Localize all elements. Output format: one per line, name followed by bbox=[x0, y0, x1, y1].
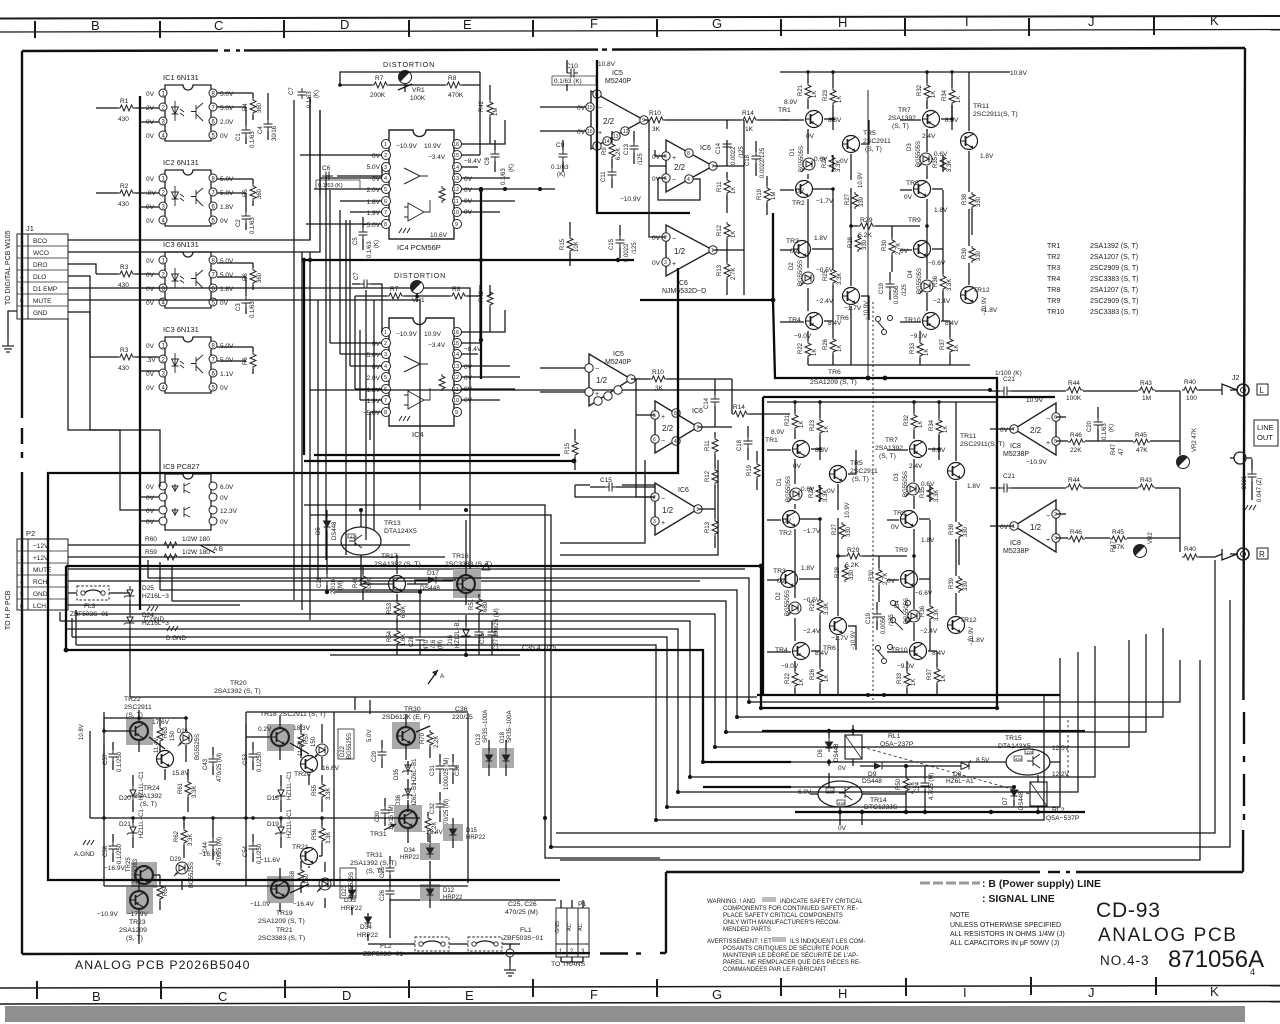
svg-text:(K): (K) bbox=[1109, 424, 1115, 432]
svg-text:R13: R13 bbox=[705, 521, 711, 533]
svg-text:POSANTS CRITIQUES DE SÉCURI: POSANTS CRITIQUES DE SÉCURITÉ POUR bbox=[723, 945, 850, 952]
switch contacts right bbox=[891, 601, 911, 631]
svg-text:1/100 (K): 1/100 (K) bbox=[995, 370, 1022, 377]
resistor R56 3.3K bbox=[319, 826, 325, 843]
svg-text:1: 1 bbox=[384, 142, 387, 148]
svg-text:F: F bbox=[590, 987, 598, 1002]
svg-text:0V: 0V bbox=[146, 519, 155, 526]
cell border mid2 bbox=[333, 712, 335, 886]
svg-text:6.0V: 6.0V bbox=[220, 484, 234, 491]
wires IC9 left bbox=[68, 318, 159, 521]
cell border mid1 bbox=[245, 712, 247, 886]
svg-text:C21: C21 bbox=[1003, 473, 1015, 480]
svg-text:C10: C10 bbox=[566, 63, 578, 70]
svg-text:430: 430 bbox=[118, 201, 129, 208]
ground C.GND bbox=[147, 606, 158, 611]
svg-text:R61: R61 bbox=[178, 782, 184, 794]
svg-text:2SC2909 (S, T): 2SC2909 (S, T) bbox=[1090, 265, 1139, 272]
svg-text:0V: 0V bbox=[1000, 427, 1009, 434]
svg-text:1: 1 bbox=[384, 330, 387, 336]
capacitor C15 bbox=[616, 236, 625, 247]
wire distortion row bbox=[340, 84, 480, 92]
relay rail junction dots bbox=[827, 729, 1040, 814]
svg-text:C31: C31 bbox=[430, 764, 436, 776]
svg-text:K: K bbox=[1210, 13, 1219, 28]
svg-text:B: B bbox=[92, 989, 101, 1004]
thick bus y650 bbox=[66, 650, 791, 762]
svg-text:HZ6L−B1: HZ6L−B1 bbox=[412, 758, 418, 784]
svg-text:47: 47 bbox=[1119, 448, 1125, 455]
svg-text:R14: R14 bbox=[733, 404, 745, 411]
svg-text:TR20: TR20 bbox=[294, 771, 311, 778]
svg-text:ZBF503S−01: ZBF503S−01 bbox=[363, 951, 403, 958]
svg-text:360: 360 bbox=[257, 102, 263, 113]
resistor R12 b bbox=[712, 468, 718, 485]
svg-text:2SA1209: 2SA1209 bbox=[119, 927, 147, 934]
svg-text:0V: 0V bbox=[146, 371, 155, 378]
svg-text:NJM5532D−D: NJM5532D−D bbox=[662, 288, 706, 295]
signal bus thick horizontal mid bbox=[304, 259, 634, 261]
svg-text:5: 5 bbox=[20, 286, 24, 293]
svg-text:IC5: IC5 bbox=[613, 351, 624, 358]
loop L1 bbox=[148, 578, 1180, 702]
svg-text:VR1: VR1 bbox=[412, 87, 425, 94]
svg-text:HZ11L−C1: HZ11L−C1 bbox=[287, 809, 293, 838]
svg-text:WCO: WCO bbox=[33, 250, 49, 257]
svg-text:ZBF503S−01: ZBF503S−01 bbox=[503, 935, 543, 942]
svg-text:+12V: +12V bbox=[33, 555, 49, 562]
svg-text:0V: 0V bbox=[372, 176, 381, 183]
capacitor C35 bbox=[475, 628, 484, 639]
svg-text:C15: C15 bbox=[609, 238, 615, 250]
svg-text:47K: 47K bbox=[1136, 447, 1148, 454]
svg-text:6: 6 bbox=[1054, 415, 1057, 421]
svg-text:−: − bbox=[672, 177, 676, 184]
svg-text:470/25 (M): 470/25 (M) bbox=[505, 909, 538, 916]
svg-text:C32: C32 bbox=[430, 802, 436, 814]
resistor R51 680 bbox=[476, 597, 482, 614]
svg-text:10.9V: 10.9V bbox=[424, 143, 442, 150]
svg-text:LINE: LINE bbox=[1257, 423, 1274, 432]
svg-text:2: 2 bbox=[20, 250, 24, 257]
svg-text:MUTE: MUTE bbox=[33, 298, 52, 305]
TR list text bbox=[1047, 243, 1139, 316]
svg-text:4: 4 bbox=[384, 176, 387, 182]
svg-text:1.8V: 1.8V bbox=[367, 199, 381, 206]
svg-text:DS448: DS448 bbox=[862, 778, 882, 785]
svg-text:DS448: DS448 bbox=[420, 585, 440, 592]
svg-text:IC4 PCM56P: IC4 PCM56P bbox=[397, 243, 441, 252]
svg-text:DS448: DS448 bbox=[332, 521, 338, 540]
svg-text:FL3: FL3 bbox=[84, 603, 96, 610]
signal bus thick horizontal lower bbox=[314, 454, 560, 456]
svg-text:−: − bbox=[661, 496, 665, 503]
svg-text:D29: D29 bbox=[170, 857, 182, 863]
svg-text:0V: 0V bbox=[838, 765, 847, 772]
svg-text:C25, C26: C25, C26 bbox=[508, 901, 537, 908]
frame right edge bbox=[1243, 48, 1245, 872]
svg-text:2SC2909 (S, T): 2SC2909 (S, T) bbox=[1090, 298, 1139, 305]
svg-text:IC9 PC827: IC9 PC827 bbox=[163, 462, 200, 471]
svg-text:HZ11L−C1: HZ11L−C1 bbox=[139, 809, 145, 838]
svg-text:0.047 (Z): 0.047 (Z) bbox=[1257, 478, 1263, 502]
svg-text:0.1/63 (K): 0.1/63 (K) bbox=[318, 183, 343, 189]
svg-text:5: 5 bbox=[653, 413, 656, 419]
svg-text:R19: R19 bbox=[757, 188, 763, 200]
array upper thick stub bbox=[772, 213, 774, 300]
svg-text:5: 5 bbox=[20, 591, 24, 598]
svg-text:D7: D7 bbox=[1003, 797, 1009, 805]
svg-text:3: 3 bbox=[664, 260, 667, 266]
svg-text:2SC3383 (S, T): 2SC3383 (S, T) bbox=[1090, 276, 1139, 283]
loop L4 bbox=[76, 614, 1129, 747]
connector P2 bbox=[17, 529, 68, 610]
svg-text:−18.4V: −18.4V bbox=[422, 829, 443, 836]
wire verticals channel bundle bbox=[294, 72, 555, 620]
svg-text:15: 15 bbox=[453, 341, 459, 347]
svg-text:D20: D20 bbox=[119, 795, 131, 802]
IC4 left pin voltages bbox=[363, 153, 381, 229]
svg-text:8: 8 bbox=[384, 410, 387, 416]
svg-text:HZ6L−A1: HZ6L−A1 bbox=[946, 778, 974, 785]
TP dashed box 2 bbox=[468, 937, 502, 951]
svg-text:1M: 1M bbox=[771, 192, 777, 200]
resistor R13 b bbox=[712, 519, 718, 536]
ground D.GND bbox=[167, 626, 178, 631]
svg-text:10.9V: 10.9V bbox=[424, 331, 442, 338]
svg-text:+: + bbox=[672, 155, 676, 162]
svg-text:1/2: 1/2 bbox=[596, 376, 608, 385]
svg-text:R51: R51 bbox=[469, 598, 475, 610]
svg-text:+: + bbox=[672, 261, 676, 268]
diode D25 HZ16L-3 bbox=[124, 586, 135, 600]
svg-text:10.8V: 10.8V bbox=[1010, 70, 1028, 77]
svg-text:47K: 47K bbox=[838, 801, 845, 806]
svg-text:0V: 0V bbox=[146, 300, 155, 307]
svg-text:4: 4 bbox=[20, 579, 24, 586]
diode D14 HRP22 safety bbox=[420, 843, 440, 860]
svg-text:C36: C36 bbox=[455, 764, 461, 776]
svg-text:0V: 0V bbox=[372, 364, 381, 371]
svg-text:BG5525S: BG5525S bbox=[195, 734, 201, 760]
svg-text:TR31: TR31 bbox=[366, 852, 383, 859]
capacitor C24 4.7/25 bbox=[921, 779, 930, 790]
svg-text:TR23: TR23 bbox=[129, 919, 146, 926]
svg-text:R9: R9 bbox=[602, 147, 608, 155]
svg-text:+: + bbox=[598, 130, 602, 137]
svg-text:D21: D21 bbox=[119, 821, 131, 828]
bottom ruler line 2 bbox=[0, 1002, 1280, 1005]
svg-text:D17: D17 bbox=[427, 570, 439, 577]
svg-text:R63: R63 bbox=[163, 726, 169, 738]
wires p1 area bbox=[352, 886, 583, 962]
svg-text:R19: R19 bbox=[747, 464, 753, 476]
svg-text:4: 4 bbox=[20, 274, 24, 281]
svg-text:C14: C14 bbox=[704, 397, 710, 409]
svg-text:TR17: TR17 bbox=[381, 553, 398, 560]
wire R1 to IC1 bbox=[96, 108, 159, 122]
thick bus right drop bbox=[761, 566, 997, 708]
svg-text:R59: R59 bbox=[145, 549, 157, 556]
svg-text:M5240P: M5240P bbox=[605, 359, 631, 366]
svg-text:TR4: TR4 bbox=[1047, 276, 1060, 283]
bundle vertical extra 1 bbox=[301, 252, 303, 610]
svg-text:−17.9V: −17.9V bbox=[127, 911, 148, 918]
svg-text:2: 2 bbox=[664, 235, 667, 241]
svg-text:2SC3383 (S, T): 2SC3383 (S, T) bbox=[258, 935, 305, 942]
svg-text:R3: R3 bbox=[120, 347, 129, 354]
svg-text:R3: R3 bbox=[120, 264, 129, 271]
svg-text:TR13: TR13 bbox=[384, 520, 401, 527]
svg-text:4: 4 bbox=[384, 364, 387, 370]
svg-text:0V: 0V bbox=[146, 385, 155, 392]
svg-text:3: 3 bbox=[20, 567, 24, 574]
svg-text:DS448: DS448 bbox=[834, 743, 840, 762]
power bus vertical bbox=[139, 96, 141, 610]
transistor TR15 DTA143XS oval bbox=[1006, 749, 1050, 775]
svg-text:0.1/63: 0.1/63 bbox=[250, 217, 256, 234]
fuse FL3 dashed box bbox=[70, 586, 109, 618]
diode D7 DS448 bbox=[1011, 786, 1018, 800]
junction dot 66,650 bbox=[64, 648, 69, 653]
svg-text:M5238P: M5238P bbox=[1003, 548, 1029, 555]
svg-text:2: 2 bbox=[384, 153, 387, 159]
svg-text:D19: D19 bbox=[267, 821, 279, 828]
svg-text:LCH: LCH bbox=[33, 603, 46, 610]
svg-text:(M): (M) bbox=[338, 581, 344, 590]
svg-text:TR15: TR15 bbox=[1005, 735, 1022, 742]
svg-text:TR25: TR25 bbox=[126, 857, 132, 872]
resistor R15 10K bbox=[567, 236, 573, 253]
svg-text:+: + bbox=[1046, 537, 1050, 544]
svg-text:6.8K: 6.8K bbox=[401, 606, 407, 618]
right family R2 bbox=[310, 515, 1230, 847]
svg-text:E: E bbox=[465, 988, 474, 1003]
svg-text:14: 14 bbox=[453, 352, 459, 358]
dotted drop right bbox=[1067, 720, 1069, 778]
svg-text:−: − bbox=[661, 438, 665, 445]
svg-text:9: 9 bbox=[642, 118, 645, 124]
relay bottom thick rail bbox=[795, 811, 1085, 813]
svg-text:2SA1209 (S, T): 2SA1209 (S, T) bbox=[258, 918, 305, 925]
svg-text:IC3 6N131: IC3 6N131 bbox=[163, 240, 199, 249]
svg-text:: B (Power supply) LINE: : B (Power supply) LINE bbox=[982, 878, 1101, 890]
thick bus y787 bbox=[703, 786, 791, 788]
svg-text:ALL CAPACITORS IN μF 50WV (J): ALL CAPACITORS IN μF 50WV (J) bbox=[950, 940, 1059, 947]
svg-text:C: C bbox=[214, 18, 223, 33]
svg-text:TR10: TR10 bbox=[1047, 309, 1064, 316]
bundle vertical extra 2 bbox=[317, 300, 319, 580]
thick bus left drop bbox=[65, 566, 67, 650]
svg-text:C14: C14 bbox=[716, 142, 722, 154]
svg-text:−12V: −12V bbox=[33, 543, 49, 550]
resistor R6 360 b bbox=[250, 352, 256, 369]
svg-text:R70: R70 bbox=[420, 732, 426, 744]
capacitor C29 bbox=[378, 748, 387, 759]
frame bottom left edge bbox=[22, 953, 666, 954]
pot VR1 bbox=[396, 68, 412, 84]
svg-text:1.9V: 1.9V bbox=[367, 210, 381, 217]
top ruler letters bbox=[91, 13, 1219, 33]
svg-text:D5: D5 bbox=[316, 527, 322, 535]
svg-text:10K: 10K bbox=[574, 241, 580, 252]
arrow A B bbox=[200, 545, 218, 553]
svg-text:0.0022/125: 0.0022/125 bbox=[760, 147, 766, 178]
svg-text:R10: R10 bbox=[649, 110, 661, 117]
bottom gray bar bbox=[5, 1006, 1245, 1022]
resistor R63 150 bbox=[157, 726, 163, 743]
array lower top thick border bbox=[763, 396, 1055, 398]
dac IC4 PCM56P bbox=[382, 130, 462, 239]
svg-text:1.8K: 1.8K bbox=[401, 634, 407, 646]
right family R3 bbox=[560, 460, 645, 543]
cell border right bbox=[467, 713, 469, 883]
svg-text:/125: /125 bbox=[638, 153, 644, 165]
svg-text:1K: 1K bbox=[745, 126, 754, 133]
diode D13 SR3S-100A safety bbox=[482, 748, 497, 768]
svg-text:IC8: IC8 bbox=[1010, 540, 1021, 547]
svg-text:1: 1 bbox=[20, 238, 24, 245]
capacitor C30 10/16 bbox=[381, 806, 390, 817]
svg-text:TR1: TR1 bbox=[1047, 243, 1060, 250]
svg-text:1: 1 bbox=[20, 543, 24, 550]
svg-text:R: R bbox=[1259, 550, 1265, 559]
svg-text:12: 12 bbox=[623, 129, 629, 135]
svg-text:5.0V: 5.0V bbox=[367, 164, 381, 171]
svg-text:HZ6L−B1: HZ6L−B1 bbox=[412, 782, 418, 808]
svg-text:C35: C35 bbox=[480, 632, 486, 644]
junction dot 761,566 bbox=[759, 564, 764, 569]
svg-text:0V: 0V bbox=[146, 495, 155, 502]
loop L2 bbox=[160, 590, 1163, 717]
svg-text:2SA1207 (S, T): 2SA1207 (S, T) bbox=[1090, 287, 1138, 294]
thick bus IC4 to IC5 bbox=[597, 60, 690, 213]
svg-text:−3.4V: −3.4V bbox=[428, 342, 446, 349]
arrow A upper bbox=[428, 670, 438, 684]
svg-text:0V: 0V bbox=[220, 133, 229, 140]
capacitor C32 470/25 bbox=[436, 800, 445, 811]
svg-text:0V: 0V bbox=[146, 133, 155, 140]
bundle vertical extra 5 bbox=[365, 290, 367, 540]
IC4 right pin voltages bbox=[464, 158, 482, 216]
svg-text:2SA1392 (S, T): 2SA1392 (S, T) bbox=[1090, 243, 1138, 250]
svg-text:DRO: DRO bbox=[33, 262, 47, 269]
svg-text:C13: C13 bbox=[624, 143, 630, 155]
svg-text:C25: C25 bbox=[380, 866, 386, 878]
svg-text:R60: R60 bbox=[145, 536, 157, 543]
resistor R70 2.2K bbox=[427, 730, 433, 747]
long wire y390 bbox=[310, 389, 990, 391]
svg-text:C.GND: C.GND bbox=[144, 616, 164, 623]
svg-text:0.1/250: 0.1/250 bbox=[257, 751, 263, 772]
svg-text:.3V: .3V bbox=[146, 357, 156, 364]
svg-text:17.6V: 17.6V bbox=[152, 719, 170, 726]
svg-text:6: 6 bbox=[384, 199, 387, 205]
resistor R61 3.3K bbox=[185, 780, 191, 797]
diode D15 HRP22 safety bbox=[443, 824, 463, 841]
svg-text:7: 7 bbox=[696, 425, 699, 431]
svg-text:+: + bbox=[595, 391, 599, 398]
svg-text:430: 430 bbox=[118, 116, 129, 123]
capacitor C25 bbox=[386, 864, 395, 875]
junction dots bbox=[302, 83, 620, 342]
svg-text:F: F bbox=[590, 16, 598, 31]
capacitor C14 b bbox=[711, 395, 720, 406]
op-amp IC6 1/2 bbox=[662, 225, 717, 276]
resistor R4 360 bbox=[250, 98, 256, 115]
svg-text:R10: R10 bbox=[652, 369, 664, 376]
svg-text:1.8V: 1.8V bbox=[220, 286, 234, 293]
svg-text:7: 7 bbox=[1012, 427, 1015, 433]
svg-text:0V: 0V bbox=[146, 218, 155, 225]
svg-text:R7: R7 bbox=[375, 75, 384, 82]
svg-text:5: 5 bbox=[384, 375, 387, 381]
diode D8 HZ6L-A1 bbox=[961, 763, 969, 770]
svg-text:−10.9V: −10.9V bbox=[1026, 459, 1047, 466]
svg-text:D1 EMP: D1 EMP bbox=[33, 286, 57, 293]
svg-text:8: 8 bbox=[674, 411, 677, 417]
transistor TR20 bbox=[301, 756, 318, 773]
svg-text:150: 150 bbox=[304, 873, 310, 884]
svg-text:0V: 0V bbox=[464, 375, 473, 382]
dac IC4 second bbox=[382, 318, 462, 426]
svg-text:0.0022: 0.0022 bbox=[624, 243, 630, 262]
svg-text:G: G bbox=[712, 987, 722, 1002]
loop L6 bbox=[66, 629, 1078, 792]
svg-text:R44: R44 bbox=[1068, 477, 1080, 484]
capacitor C44 470/25 bbox=[209, 838, 218, 849]
capacitor C13 bbox=[630, 142, 639, 153]
capacitor C18 b bbox=[744, 437, 753, 448]
svg-text:IC1 6N131: IC1 6N131 bbox=[163, 73, 199, 82]
svg-text:R14: R14 bbox=[742, 110, 754, 117]
svg-text:AVERTISSEMENT: ! ET: AVERTISSEMENT: ! ET bbox=[707, 938, 772, 945]
svg-text:TR8: TR8 bbox=[1047, 287, 1060, 294]
svg-text:R12: R12 bbox=[705, 470, 711, 482]
svg-text:14: 14 bbox=[453, 165, 459, 171]
zener D19 bbox=[275, 823, 286, 837]
svg-text:2.7K: 2.7K bbox=[731, 268, 737, 280]
svg-text:−8.4V: −8.4V bbox=[464, 158, 482, 165]
transistor TR16 safety gray bbox=[453, 569, 481, 598]
svg-text:3K: 3K bbox=[652, 126, 661, 133]
svg-text:2: 2 bbox=[20, 555, 24, 562]
svg-text:5.0V: 5.0V bbox=[367, 730, 373, 742]
svg-text:0V: 0V bbox=[652, 154, 661, 161]
svg-text:R47: R47 bbox=[1111, 540, 1117, 552]
resistor R6 360 bbox=[250, 268, 256, 285]
ground at J1 bbox=[2, 340, 14, 352]
svg-text:(K): (K) bbox=[509, 164, 515, 172]
svg-text:1.1V: 1.1V bbox=[220, 371, 234, 378]
svg-text:+: + bbox=[661, 520, 665, 527]
svg-text:TR24: TR24 bbox=[143, 785, 160, 792]
svg-text:2SA1392 (S, T): 2SA1392 (S, T) bbox=[214, 688, 261, 695]
svg-text:D6: D6 bbox=[818, 749, 824, 757]
svg-text:0V: 0V bbox=[372, 341, 381, 348]
svg-text:VR1: VR1 bbox=[412, 297, 425, 304]
svg-text:R43: R43 bbox=[1140, 380, 1152, 387]
resistor R58 150 bbox=[298, 868, 304, 885]
svg-text:COMMANDÉES PAR LE FABRICANT: COMMANDÉES PAR LE FABRICANT bbox=[723, 966, 826, 973]
diode D10 SR3S-100A safety bbox=[499, 748, 514, 768]
svg-text:12K: 12K bbox=[1026, 750, 1033, 755]
svg-text:R55: R55 bbox=[312, 784, 318, 796]
capacitor C57 0.1/250 bbox=[109, 750, 118, 761]
svg-text:R11: R11 bbox=[717, 181, 723, 192]
wires J1 to ICs fan bbox=[68, 97, 470, 570]
cell border top bbox=[246, 711, 468, 713]
